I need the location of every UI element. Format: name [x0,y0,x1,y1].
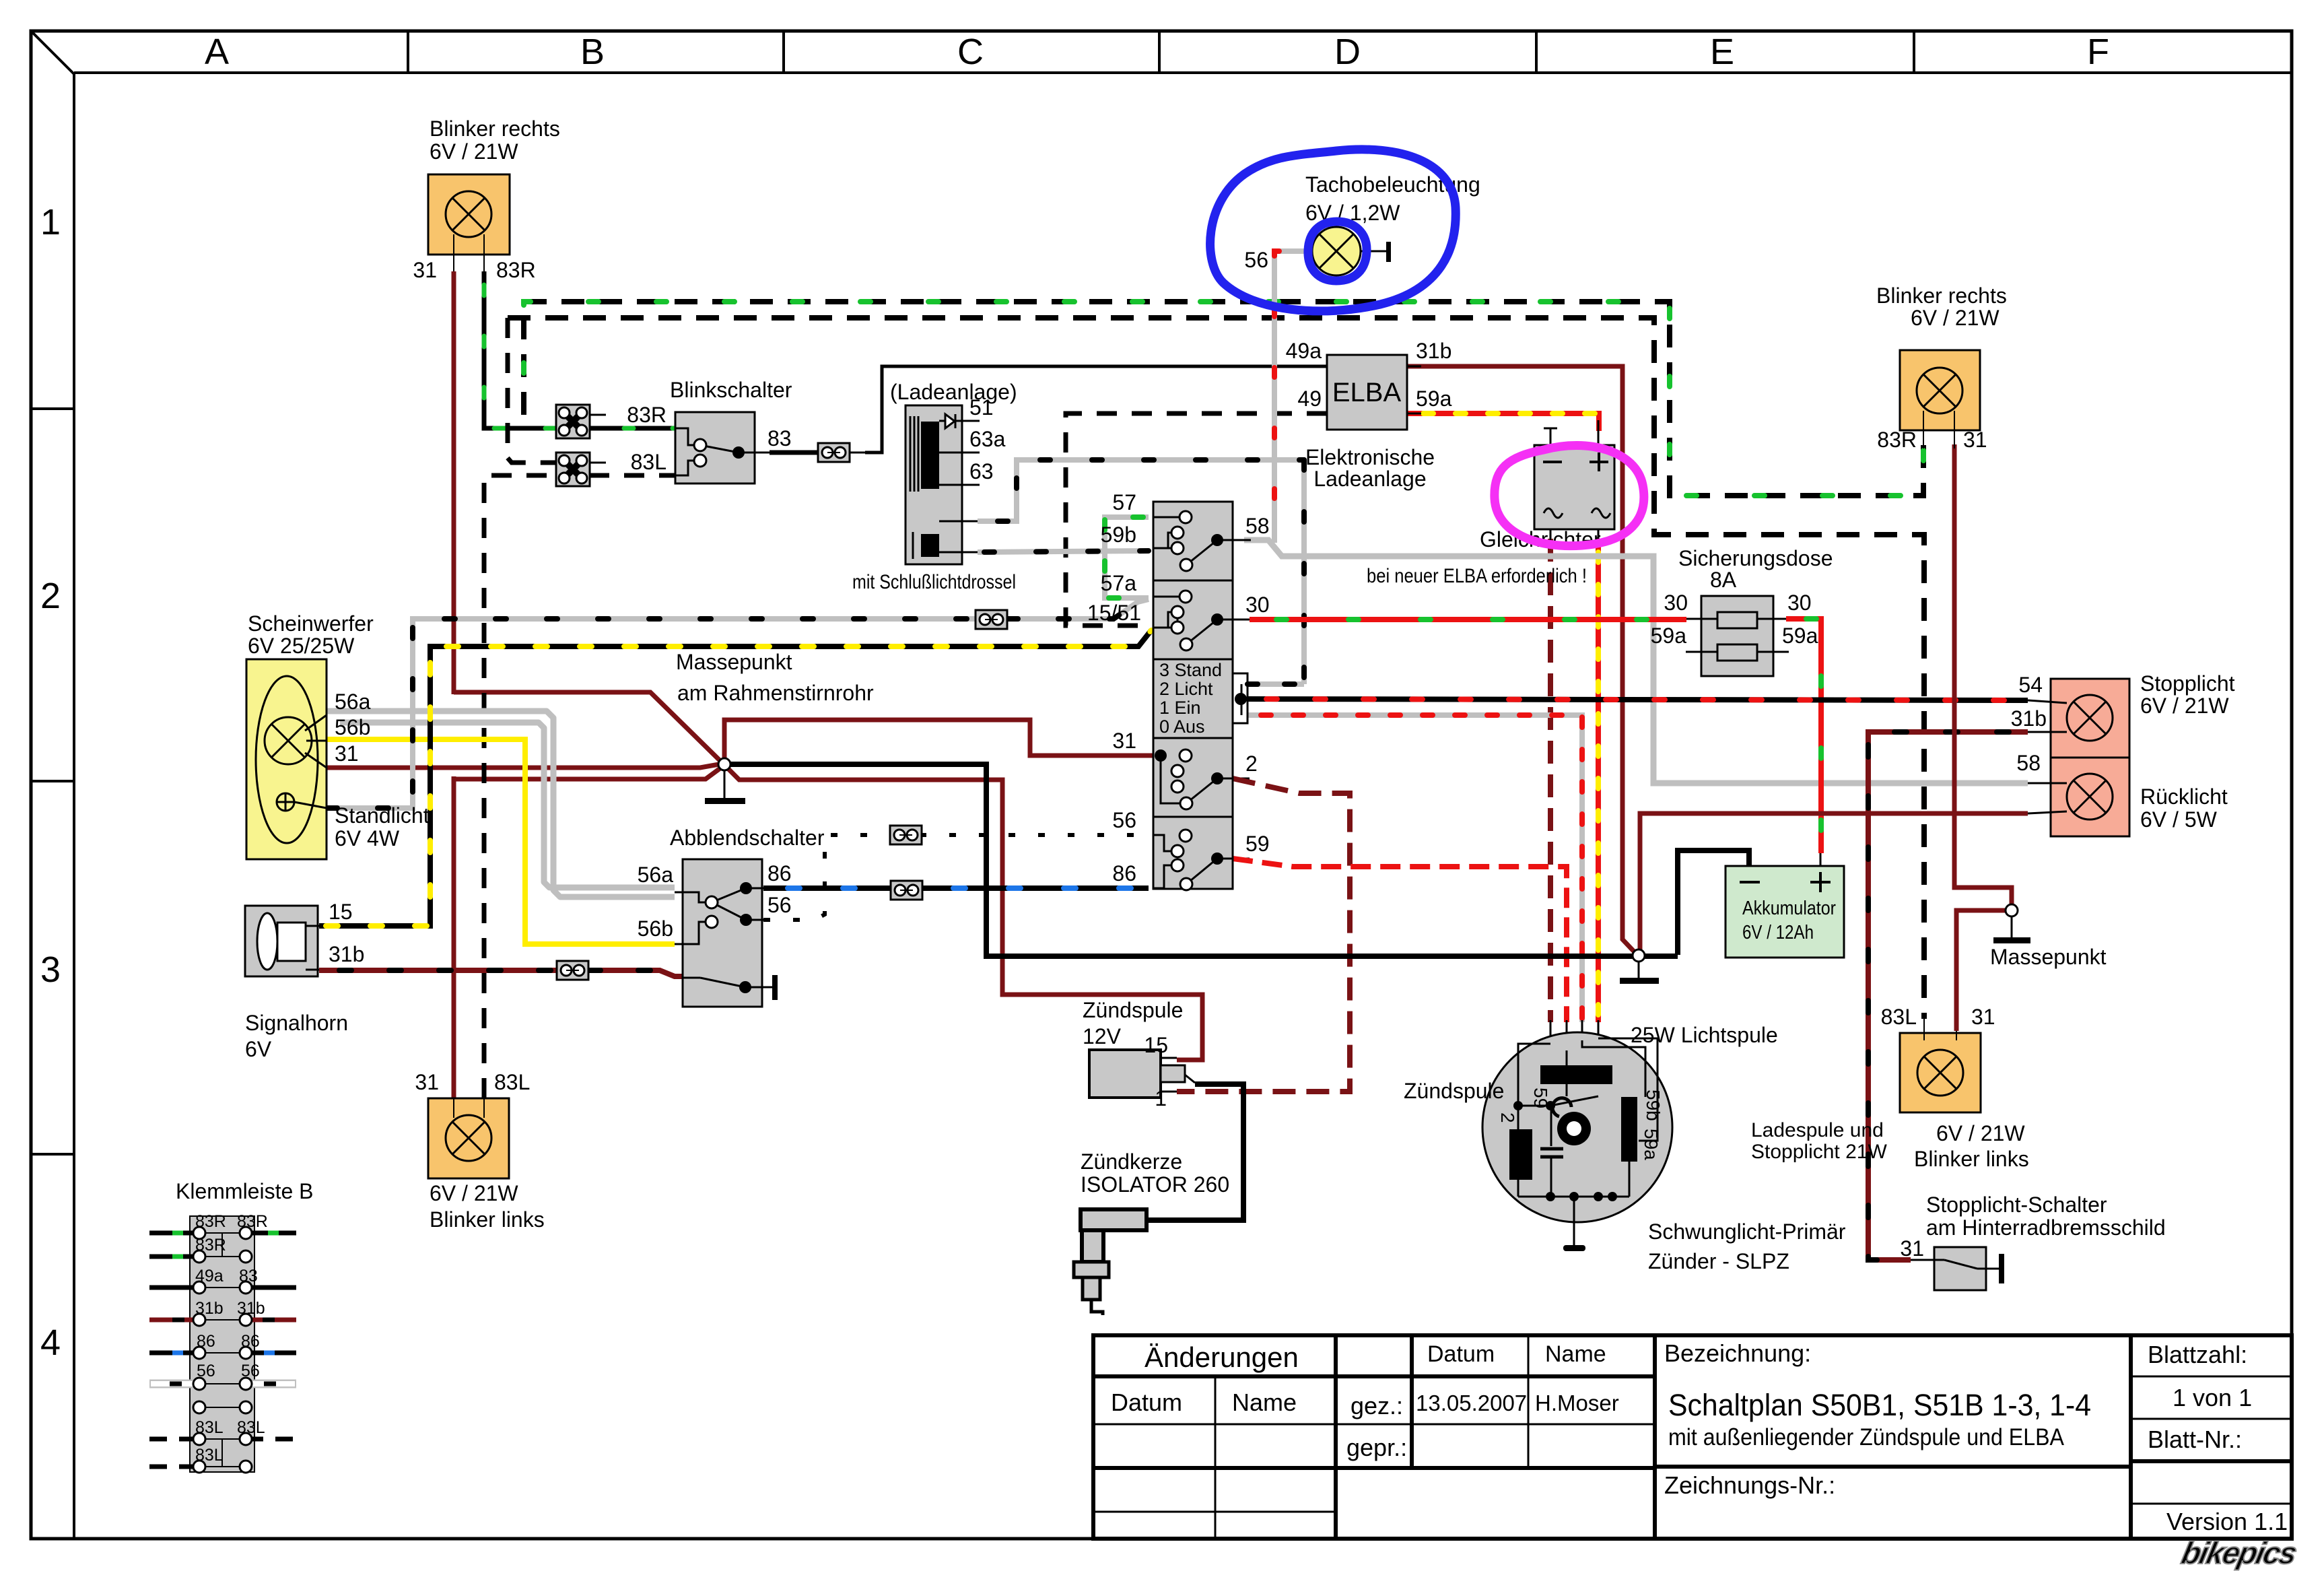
svg-text:83L: 83L [195,1418,224,1437]
svg-text:D: D [1334,32,1361,72]
svg-text:C: C [957,32,984,72]
svg-text:31b: 31b [1416,339,1451,363]
svg-text:Zünder - SLPZ: Zünder - SLPZ [1648,1249,1789,1273]
svg-text:Standlicht: Standlicht [335,803,430,828]
svg-text:56b: 56b [638,916,673,941]
svg-text:57: 57 [1112,490,1136,514]
svg-text:ISOLATOR 260: ISOLATOR 260 [1081,1172,1229,1197]
svg-text:A: A [205,32,229,72]
svg-text:12V: 12V [1083,1024,1122,1048]
svg-text:3 Stand: 3 Stand [1159,660,1222,680]
svg-text:1 Ein: 1 Ein [1159,698,1201,718]
svg-text:31b: 31b [195,1299,224,1318]
svg-text:31: 31 [1112,729,1136,753]
svg-text:Akkumulator: Akkumulator [1742,898,1836,919]
svg-text:Name: Name [1232,1389,1297,1416]
svg-text:3: 3 [40,949,61,990]
svg-text:Schwunglicht-Primär: Schwunglicht-Primär [1648,1219,1846,1244]
svg-text:1: 1 [1155,1086,1167,1110]
svg-text:Zündspule: Zündspule [1083,998,1183,1022]
svg-text:31b: 31b [329,942,364,966]
svg-text:6V / 21W: 6V / 21W [430,139,518,164]
svg-text:15/51: 15/51 [1087,601,1141,625]
svg-text:56: 56 [767,893,792,917]
svg-text:Blattzahl:: Blattzahl: [2148,1341,2247,1368]
svg-text:gez.:: gez.: [1351,1392,1403,1419]
svg-text:51: 51 [969,395,994,420]
svg-text:83R: 83R [237,1212,268,1231]
svg-text:4: 4 [40,1323,61,1363]
svg-text:1 von 1: 1 von 1 [2173,1384,2252,1411]
svg-text:59a: 59a [1782,624,1818,648]
svg-text:59a: 59a [1641,1129,1662,1160]
svg-text:83R: 83R [195,1236,226,1255]
svg-text:59: 59 [1530,1088,1551,1108]
svg-text:56: 56 [197,1362,215,1380]
svg-text:Blinker rechts: Blinker rechts [1876,283,2007,308]
svg-text:31: 31 [1971,1005,1995,1029]
svg-text:Abblendschalter: Abblendschalter [670,826,825,850]
svg-text:Änderungen: Änderungen [1144,1341,1299,1373]
svg-text:Blinker rechts: Blinker rechts [430,116,560,141]
svg-text:31: 31 [415,1070,439,1094]
svg-text:Stopplicht-Schalter: Stopplicht-Schalter [1926,1193,2107,1217]
svg-text:6V / 21W: 6V / 21W [1936,1121,2025,1145]
svg-text:Blinkschalter: Blinkschalter [670,378,792,402]
svg-text:Datum: Datum [1111,1389,1182,1416]
svg-text:57a: 57a [1101,571,1137,595]
svg-text:86: 86 [197,1332,215,1351]
svg-text:Scheinwerfer: Scheinwerfer [248,611,374,636]
svg-text:ELBA: ELBA [1332,378,1402,407]
svg-text:86: 86 [241,1332,260,1351]
svg-text:83R: 83R [496,258,536,282]
svg-text:56: 56 [1244,248,1268,272]
svg-text:am Hinterradbremsschild: am Hinterradbremsschild [1926,1215,2166,1240]
svg-text:(Ladeanlage): (Ladeanlage) [890,380,1017,404]
svg-text:13.05.2007: 13.05.2007 [1416,1391,1527,1415]
svg-text:Version 1.1: Version 1.1 [2166,1508,2288,1535]
svg-text:gepr.:: gepr.: [1346,1434,1407,1461]
svg-text:83R: 83R [1877,428,1917,452]
svg-text:31b: 31b [237,1299,265,1318]
svg-text:6V / 12Ah: 6V / 12Ah [1742,922,1814,943]
svg-text:63a: 63a [969,427,1006,451]
svg-text:Sicherungsdose: Sicherungsdose [1678,546,1833,570]
svg-text:Massepunkt: Massepunkt [676,650,792,674]
svg-text:15: 15 [329,900,353,924]
svg-text:86: 86 [767,861,792,885]
svg-text:Name: Name [1545,1341,1606,1367]
svg-text:6V: 6V [245,1037,272,1061]
svg-text:Blatt-Nr.:: Blatt-Nr.: [2148,1426,2242,1453]
svg-text:Klemmleiste B: Klemmleiste B [176,1179,314,1203]
svg-text:56: 56 [241,1362,260,1380]
svg-text:31: 31 [335,741,359,766]
svg-text:56a: 56a [638,863,674,887]
svg-text:Signalhorn: Signalhorn [245,1011,348,1035]
svg-text:83L: 83L [631,450,667,474]
svg-text:mit Schlußlichtdrossel: mit Schlußlichtdrossel [852,571,1016,593]
svg-text:am Rahmenstirnrohr: am Rahmenstirnrohr [677,681,874,705]
svg-text:Massepunkt: Massepunkt [1990,945,2107,969]
svg-text:0 Aus: 0 Aus [1159,716,1205,737]
svg-text:Elektronische: Elektronische [1305,445,1435,469]
svg-text:83L: 83L [237,1418,265,1437]
svg-text:6V 25/25W: 6V 25/25W [248,634,355,658]
svg-text:1: 1 [40,202,61,242]
svg-text:59b: 59b [1643,1090,1664,1121]
svg-text:59: 59 [1245,832,1270,856]
svg-text:30: 30 [1787,591,1812,615]
svg-text:8A: 8A [1710,568,1737,592]
svg-text:49: 49 [1297,387,1322,411]
svg-text:mit außenliegender Zündspule u: mit außenliegender Zündspule und ELBA [1668,1424,2065,1450]
svg-text:63: 63 [969,459,994,483]
svg-text:B: B [580,32,605,72]
svg-text:86: 86 [1112,861,1136,885]
svg-text:30: 30 [1245,593,1270,617]
svg-text:56b: 56b [335,715,370,739]
svg-text:Zeichnungs-Nr.:: Zeichnungs-Nr.: [1664,1471,1835,1499]
svg-text:Blinker links: Blinker links [430,1207,545,1232]
svg-text:Stopplicht: Stopplicht [2140,671,2235,696]
svg-text:58: 58 [1245,514,1270,538]
svg-text:58: 58 [2016,751,2041,775]
svg-text:49a: 49a [195,1267,224,1285]
svg-text:59b: 59b [1101,523,1136,547]
svg-text:49a: 49a [1286,339,1322,363]
svg-text:bikepics: bikepics [2179,1535,2300,1570]
svg-text:E: E [1710,32,1734,72]
svg-text:83L: 83L [494,1070,530,1094]
svg-text:H.Moser: H.Moser [1535,1391,1619,1415]
svg-text:bei neuer ELBA erforderlich !: bei neuer ELBA erforderlich ! [1367,565,1587,587]
svg-text:2 Licht: 2 Licht [1159,679,1213,699]
svg-text:6V / 21W: 6V / 21W [430,1181,518,1205]
svg-text:30: 30 [1664,591,1688,615]
svg-text:83L: 83L [195,1446,224,1465]
svg-text:Schaltplan S50B1, S51B 1-3, 1-: Schaltplan S50B1, S51B 1-3, 1-4 [1668,1388,2091,1422]
svg-text:83R: 83R [627,403,667,427]
svg-text:6V / 21W: 6V / 21W [1911,306,2000,330]
svg-text:83L: 83L [1881,1005,1917,1029]
svg-text:59a: 59a [1416,387,1452,411]
svg-text:56: 56 [1112,808,1136,832]
svg-text:6V 4W: 6V 4W [335,826,400,850]
svg-text:15: 15 [1144,1033,1168,1057]
svg-text:31b: 31b [2011,706,2047,731]
svg-text:Rücklicht: Rücklicht [2140,784,2228,809]
svg-text:Zündspule: Zündspule [1404,1079,1504,1103]
svg-text:31: 31 [413,258,437,282]
svg-text:Datum: Datum [1427,1341,1495,1367]
svg-text:25W Lichtspule: 25W Lichtspule [1631,1023,1778,1047]
svg-text:Ladeanlage: Ladeanlage [1313,467,1426,491]
svg-text:Stopplicht 21W: Stopplicht 21W [1751,1141,1887,1163]
svg-text:Ladespule und: Ladespule und [1751,1119,1884,1141]
svg-text:2: 2 [1497,1112,1518,1123]
svg-text:83: 83 [239,1267,258,1285]
svg-text:6V / 21W: 6V / 21W [2140,694,2229,718]
svg-text:Zündkerze: Zündkerze [1081,1149,1182,1174]
svg-text:F: F [2087,32,2109,72]
svg-text:2: 2 [1245,751,1258,776]
svg-text:83R: 83R [195,1212,226,1231]
svg-text:Bezeichnung:: Bezeichnung: [1664,1339,1811,1367]
svg-text:59a: 59a [1651,624,1687,648]
svg-text:54: 54 [2018,673,2043,697]
svg-text:6V / 5W: 6V / 5W [2140,807,2218,832]
svg-text:2: 2 [40,576,61,616]
svg-text:31: 31 [1900,1236,1924,1261]
svg-text:56a: 56a [335,690,371,714]
svg-text:Blinker links: Blinker links [1914,1147,2029,1171]
svg-text:31: 31 [1963,428,1987,452]
svg-text:83: 83 [767,426,792,450]
